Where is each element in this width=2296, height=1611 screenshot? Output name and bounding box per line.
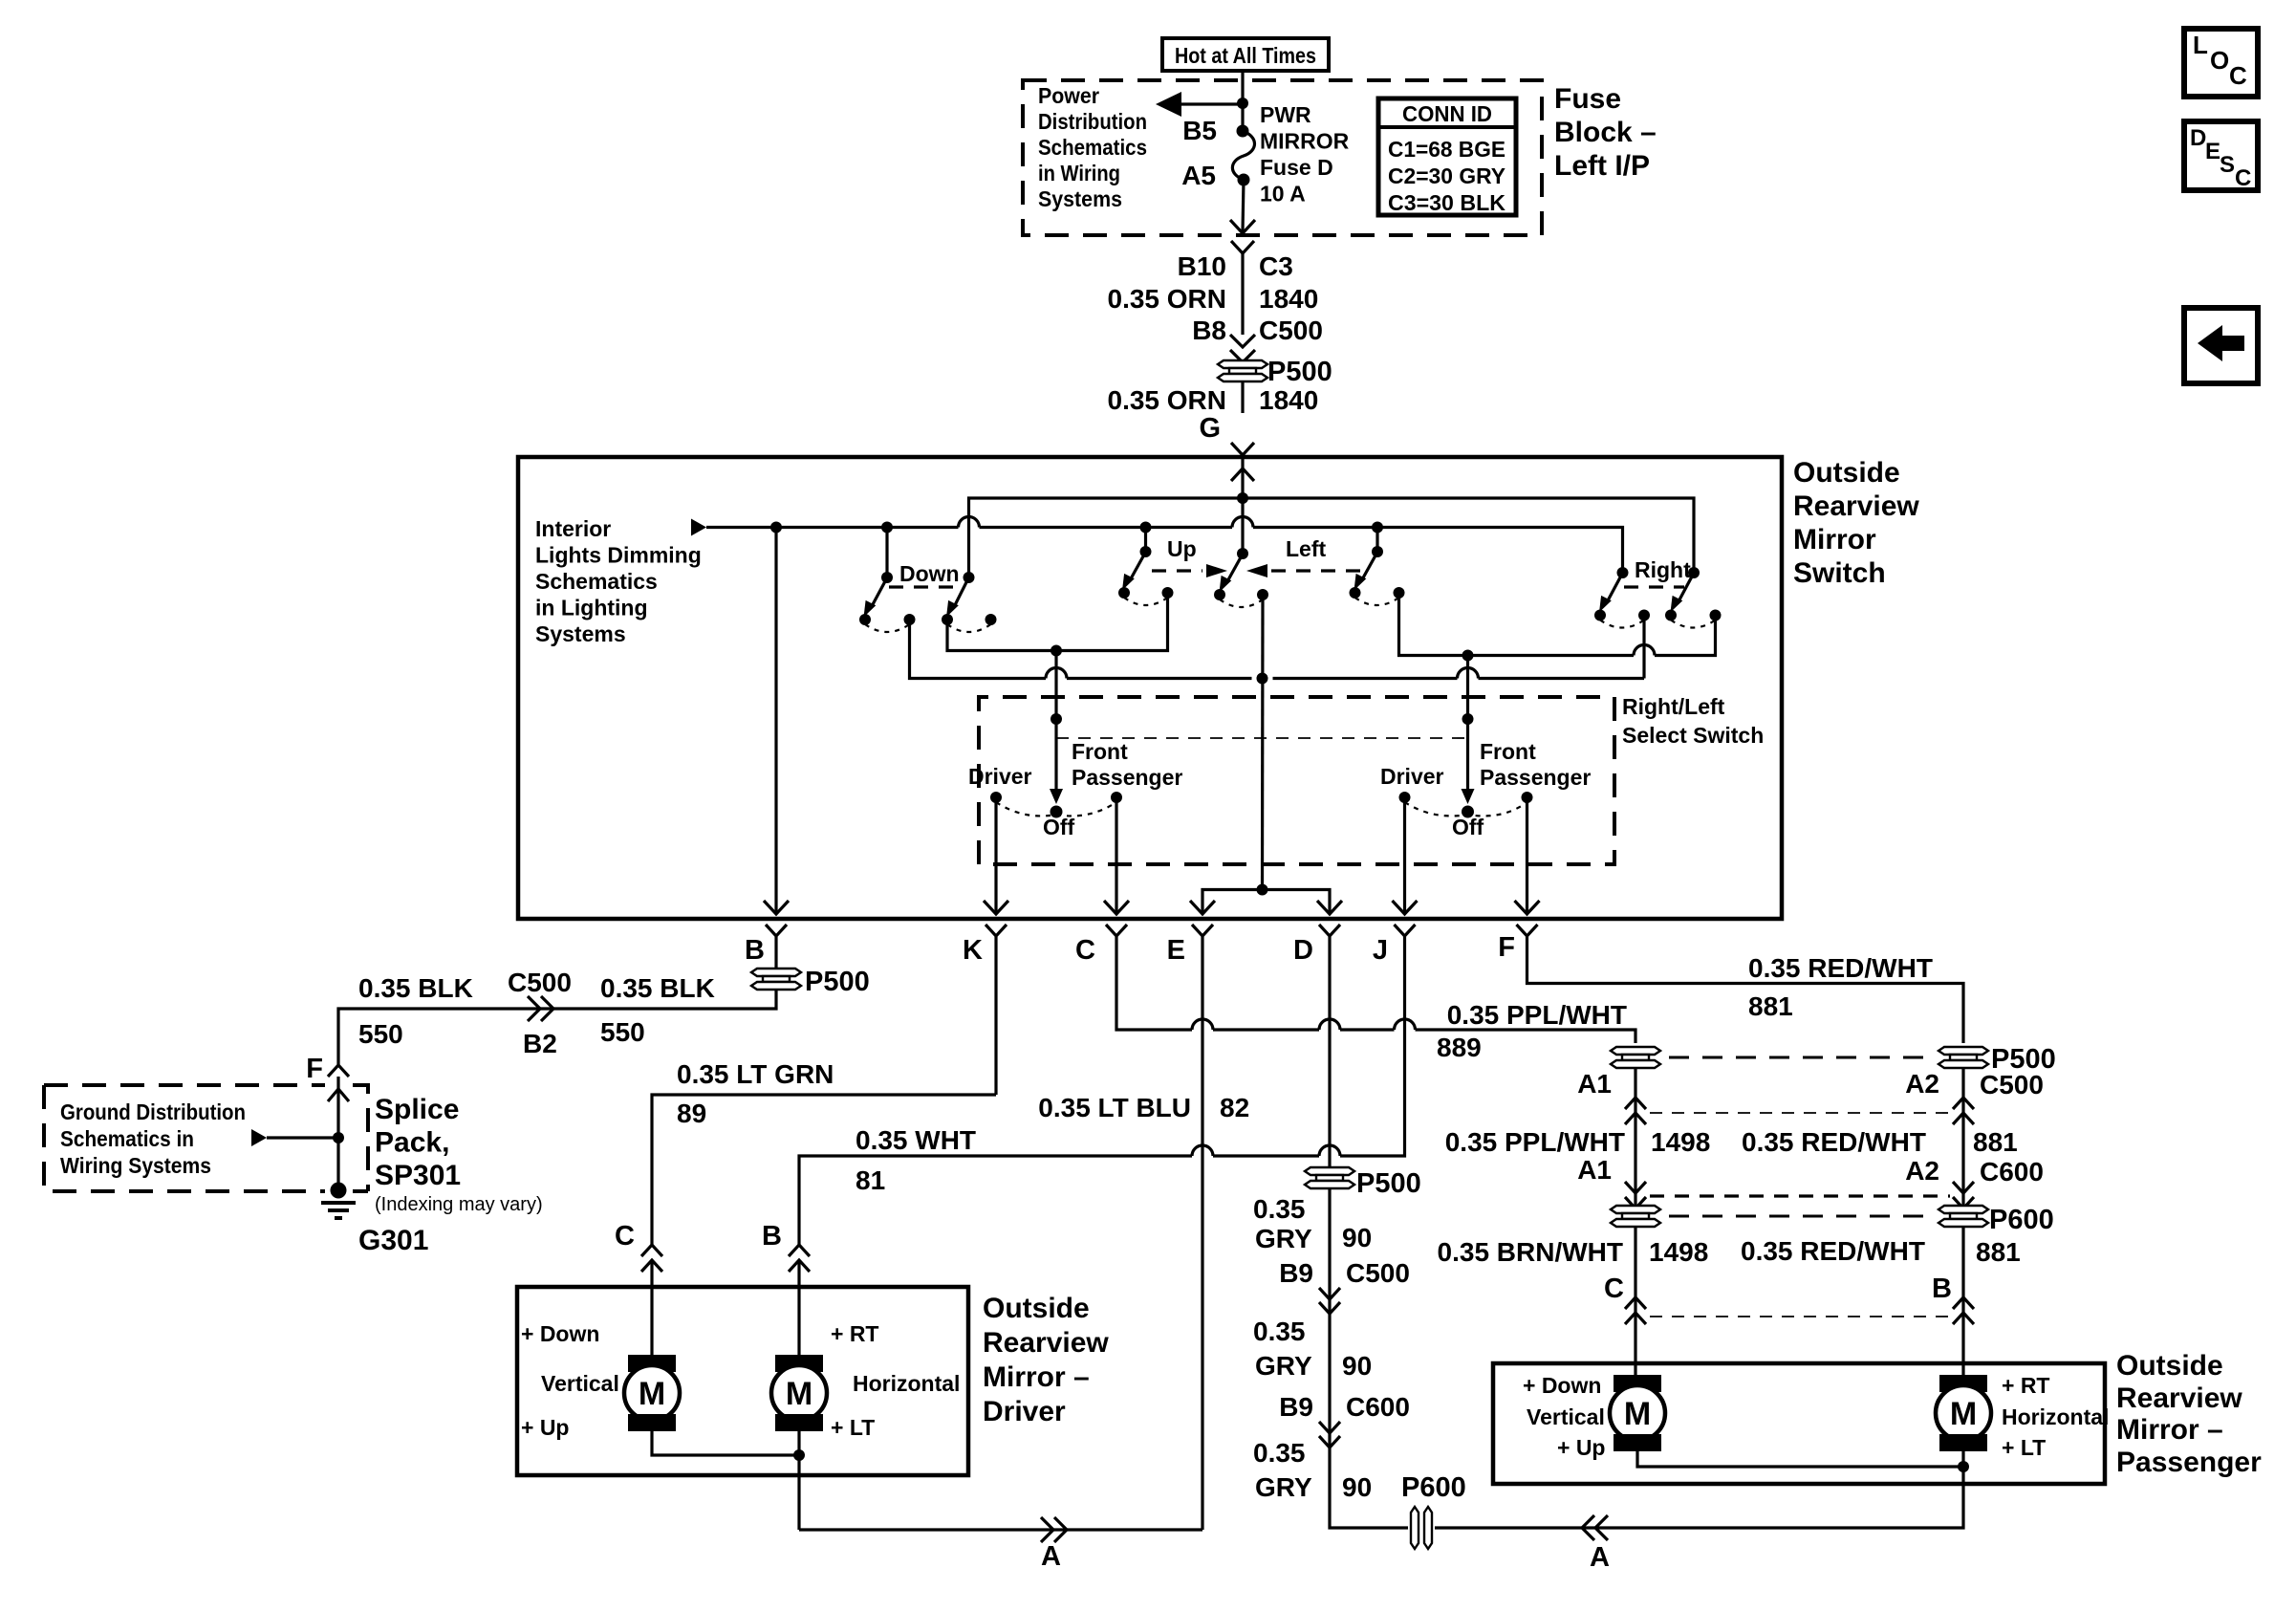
wire: F output <box>1526 797 1528 914</box>
arrow up inside ground box <box>328 1089 349 1101</box>
svg-text:0.35 BLK: 0.35 BLK <box>358 973 473 1003</box>
wire: J output <box>1403 797 1406 914</box>
svg-text:M: M <box>786 1376 812 1412</box>
select left contacts <box>968 739 1182 839</box>
svg-text:Down: Down <box>899 561 960 586</box>
svg-text:C500: C500 <box>1259 316 1323 345</box>
svg-text:P500: P500 <box>805 967 870 997</box>
wire: select right drop <box>1466 656 1469 720</box>
wire: left arm contact down to E/D <box>1261 595 1265 890</box>
svg-text:CONN ID: CONN ID <box>1402 101 1492 126</box>
down switch arm 1 <box>859 528 916 633</box>
node: up switch arm tap <box>1140 522 1152 533</box>
svg-text:Hot at All Times: Hot at All Times <box>1175 43 1316 68</box>
svg-text:82: 82 <box>1220 1093 1249 1122</box>
hop: WHT over E <box>1192 1145 1213 1156</box>
svg-text:90: 90 <box>1342 1472 1372 1502</box>
wire+arrow: select right arm to off <box>1466 719 1469 792</box>
arrow down E <box>1190 901 1215 914</box>
dashed link P500 pair <box>1669 1056 1933 1059</box>
wire: 0.35 GRY 90 chain on D <box>1253 1168 1466 1503</box>
svg-text:Rearview: Rearview <box>983 1327 1109 1359</box>
connector P500 (on orange feed) <box>1218 357 1332 387</box>
hop: rail B over rail A drop <box>959 517 980 528</box>
svg-text:Ground Distribution: Ground Distribution <box>60 1099 246 1124</box>
outside rearview mirror switch box <box>518 457 1782 919</box>
wire: K output <box>994 797 997 914</box>
connector P500 on B wire <box>751 967 870 997</box>
svg-text:Up: Up <box>1167 536 1197 561</box>
svg-text:Mirror –: Mirror – <box>983 1361 1090 1393</box>
outside rearview mirror passenger box <box>1493 1363 2105 1484</box>
connector P600 inline on A wire <box>1411 1484 1963 1549</box>
svg-text:0.35 PPL/WHT: 0.35 PPL/WHT <box>1447 1000 1627 1030</box>
wire+arrow: select left arm to off <box>1054 719 1057 792</box>
node: E/D split <box>1257 884 1268 896</box>
labels 0.35 PPL/WHT 889 <box>1437 1000 1627 1062</box>
svg-text:Block –: Block – <box>1554 117 1657 148</box>
svg-text:C: C <box>2229 61 2247 90</box>
svg-text:D: D <box>1293 935 1313 966</box>
wire: pointer to splice <box>267 1136 338 1139</box>
connector A chevrons on driver common <box>1041 1517 1067 1542</box>
svg-text:Distribution: Distribution <box>1038 109 1147 134</box>
label: Outside Rearview Mirror - Driver <box>983 1293 1109 1427</box>
svg-text:B9: B9 <box>1279 1258 1313 1288</box>
connector P600 left lens <box>1611 1206 1660 1227</box>
svg-text:+ RT: + RT <box>2002 1373 2049 1398</box>
wire: hot feed into fuse block <box>1241 71 1244 131</box>
svg-text:B5: B5 <box>1182 116 1217 145</box>
svg-text:Left: Left <box>1286 536 1327 561</box>
thin dashed link C600 halves <box>1650 1194 1950 1197</box>
svg-text:0.35 RED/WHT: 0.35 RED/WHT <box>1742 1127 1926 1157</box>
svg-text:Switch: Switch <box>1793 557 1886 589</box>
node: splice junction <box>333 1132 344 1143</box>
svg-text:90: 90 <box>1342 1223 1372 1252</box>
svg-text:P500: P500 <box>1267 357 1332 387</box>
node: common rail to E/D <box>1257 673 1268 685</box>
left action dashed arrow <box>1246 564 1267 577</box>
svg-text:C: C <box>2235 165 2251 191</box>
wire into switch box, pin G <box>1231 443 1254 455</box>
wire: C output <box>1115 797 1117 914</box>
svg-text:MIRROR: MIRROR <box>1260 129 1350 154</box>
wire: branch to power distribution (left arrow) <box>1178 102 1243 105</box>
svg-text:B: B <box>762 1221 782 1252</box>
wire: BRN/WHT drop to passenger C <box>1634 1227 1636 1363</box>
svg-text:B: B <box>745 935 765 966</box>
labels 0.35 PPL/WHT 1498 / 0.35 RED/WHT 881 <box>1445 1127 2018 1157</box>
svg-text:0.35 ORN: 0.35 ORN <box>1108 284 1227 314</box>
down switch arm 2 <box>942 572 997 632</box>
wire: select left drop <box>1054 651 1057 720</box>
connector B8/C500 chevrons <box>1230 335 1255 362</box>
svg-text:GRY: GRY <box>1255 1472 1312 1502</box>
conn id table <box>1378 98 1516 215</box>
svg-text:(Indexing may vary): (Indexing may vary) <box>375 1194 543 1215</box>
thin dashed link passenger mirror conn <box>1650 1316 1950 1317</box>
svg-text:P500: P500 <box>1356 1168 1421 1199</box>
svg-text:81: 81 <box>856 1165 885 1195</box>
svg-text:550: 550 <box>358 1019 403 1049</box>
svg-text:Schematics: Schematics <box>1038 135 1147 160</box>
svg-text:Splice: Splice <box>375 1094 459 1125</box>
chevron B9/C500 on D <box>1319 1288 1340 1314</box>
svg-text:Wiring Systems: Wiring Systems <box>60 1153 211 1178</box>
svg-text:0.35 LT BLU: 0.35 LT BLU <box>1038 1093 1191 1122</box>
connector P500 A1 lens <box>1611 1047 1660 1068</box>
svg-text:D: D <box>2190 125 2206 151</box>
node: up collector tap <box>1051 645 1062 657</box>
svg-text:A: A <box>1041 1541 1061 1572</box>
wire: contact drop to common rail <box>1642 616 1645 679</box>
svg-text:B2: B2 <box>523 1029 557 1058</box>
wire: A1 drop with chevrons up <box>1634 1068 1636 1208</box>
left switch center arm (on feed) <box>1214 498 1268 607</box>
svg-text:Driver: Driver <box>1380 764 1444 789</box>
ground G301 <box>321 1183 428 1257</box>
svg-text:0.35 RED/WHT: 0.35 RED/WHT <box>1741 1236 1925 1266</box>
svg-text:0.35: 0.35 <box>1253 1438 1306 1468</box>
connector C500 B2 chevrons <box>528 996 553 1021</box>
label: Interior Lights Dimming Schematics in Lighting Systems <box>535 516 702 646</box>
svg-text:Outside: Outside <box>1793 457 1900 489</box>
driver horizontal motor M <box>771 1287 960 1440</box>
node: right collector tap <box>1462 650 1474 662</box>
svg-text:1840: 1840 <box>1259 284 1318 314</box>
svg-text:1498: 1498 <box>1651 1127 1710 1157</box>
svg-text:Front: Front <box>1480 739 1536 764</box>
label: Right/Left Select Switch <box>1622 694 1764 748</box>
wire: A2 drop with chevrons up <box>1961 1068 1964 1208</box>
svg-text:0.35 BLK: 0.35 BLK <box>600 973 715 1003</box>
node: branch junction <box>1237 98 1248 109</box>
wire: RED/WHT drop to passenger B <box>1961 1227 1964 1363</box>
node: passenger common junction <box>1958 1461 1969 1472</box>
hop: common rail over select right drop <box>1458 668 1479 679</box>
svg-text:J: J <box>1373 935 1388 966</box>
node: driver common junction <box>793 1449 805 1461</box>
svg-text:881: 881 <box>1976 1237 2021 1267</box>
svg-text:A5: A5 <box>1181 161 1216 190</box>
select right contacts <box>1380 739 1591 839</box>
svg-text:Fuse: Fuse <box>1554 83 1621 115</box>
svg-text:in Lighting: in Lighting <box>535 596 648 620</box>
LOC box (top right icon) <box>2184 29 2258 97</box>
svg-text:C2=30 GRY: C2=30 GRY <box>1388 163 1505 188</box>
node: select left arm <box>1051 713 1062 725</box>
wire: 0.35 RED/WHT 881 (F to P500 A2) <box>1527 972 1964 1043</box>
svg-text:550: 550 <box>600 1017 645 1047</box>
arrow left (page pointer) <box>1156 92 1181 117</box>
svg-text:C500: C500 <box>1346 1258 1410 1288</box>
wire: D below P500 <box>1330 1188 1408 1528</box>
driver mirror pin letters + chevrons <box>615 1221 810 1287</box>
passenger vertical motor M <box>1523 1363 1665 1460</box>
svg-text:Rearview: Rearview <box>2116 1382 2242 1414</box>
svg-text:Horizontal: Horizontal <box>853 1371 960 1396</box>
svg-text:A1: A1 <box>1577 1155 1612 1185</box>
connector P500 on D lens <box>1305 1167 1354 1188</box>
svg-text:Driver: Driver <box>968 764 1032 789</box>
svg-text:C600: C600 <box>1980 1157 2044 1186</box>
svg-text:889: 889 <box>1437 1033 1482 1062</box>
mech link: select arms <box>1056 737 1468 739</box>
svg-text:C500: C500 <box>508 968 572 997</box>
hop: PPL over E <box>1192 1019 1213 1030</box>
svg-text:+ Up: + Up <box>1557 1435 1605 1460</box>
svg-text:+ Up: + Up <box>521 1415 569 1440</box>
svg-text:+ LT: + LT <box>2002 1435 2046 1460</box>
svg-text:Driver: Driver <box>983 1396 1066 1427</box>
label: Ground Distribution Schematics in Wiring Systems <box>60 1099 246 1178</box>
svg-text:C3=30 BLK: C3=30 BLK <box>1388 190 1505 215</box>
svg-text:PWR: PWR <box>1260 102 1311 127</box>
svg-text:0.35 WHT: 0.35 WHT <box>856 1125 976 1155</box>
svg-text:1498: 1498 <box>1649 1237 1708 1267</box>
rail B: dimming feed bus <box>706 528 1623 574</box>
connector P600 right lens <box>1939 1205 2054 1235</box>
svg-text:C: C <box>1604 1274 1624 1304</box>
wire: driver motors common <box>652 1429 799 1530</box>
svg-text:A: A <box>1590 1542 1610 1573</box>
svg-text:B: B <box>1932 1274 1952 1304</box>
svg-text:M: M <box>1624 1396 1651 1432</box>
passenger pin letters + chevrons <box>1604 1274 1974 1324</box>
svg-text:C: C <box>1075 935 1095 966</box>
outside rearview mirror driver box <box>517 1287 968 1475</box>
wire: 0.35 LT GRN 89 (K to driver mirror C) <box>652 1095 996 1245</box>
svg-text:Systems: Systems <box>1038 186 1122 211</box>
labels 0.35 LT GRN 89 <box>677 1059 834 1128</box>
svg-text:Off: Off <box>1452 815 1484 839</box>
svg-text:89: 89 <box>677 1099 706 1128</box>
svg-text:+ Down: + Down <box>1523 1373 1601 1398</box>
svg-text:C500: C500 <box>1980 1070 2044 1099</box>
svg-text:Rearview: Rearview <box>1793 490 1919 522</box>
right/left select switch dashed box <box>979 697 1614 864</box>
svg-text:Right: Right <box>1635 557 1691 582</box>
left switch arm 2 <box>1350 528 1405 606</box>
connector P500 A2 lens <box>1939 1044 2056 1075</box>
svg-text:Select Switch: Select Switch <box>1622 723 1764 748</box>
svg-text:Passenger: Passenger <box>2116 1447 2262 1478</box>
connector A chevrons (passenger) <box>1582 1515 1608 1540</box>
svg-text:0.35 LT GRN: 0.35 LT GRN <box>677 1059 834 1089</box>
svg-text:Mirror –: Mirror – <box>2116 1414 2223 1446</box>
svg-text:A2: A2 <box>1905 1156 1939 1186</box>
wire: passenger motors common <box>1637 1449 1963 1484</box>
svg-text:Left I/P: Left I/P <box>1554 150 1650 182</box>
hop: main feed over rail B <box>1232 517 1253 528</box>
labels A1 A2 C500 <box>1577 1069 2044 1099</box>
svg-text:Passenger: Passenger <box>1072 765 1182 790</box>
driver vertical motor M <box>521 1287 680 1440</box>
svg-text:G: G <box>1199 413 1221 444</box>
rail A: upper feed bus <box>969 498 1695 577</box>
label 0.35 ORN 1840 (lower) <box>1108 385 1319 444</box>
labels A1 A2 C600 <box>1577 1155 2044 1186</box>
svg-text:G301: G301 <box>358 1225 428 1256</box>
hop: right collector over contact drop <box>1634 645 1655 656</box>
DESC box (top right icon) <box>2184 121 2258 191</box>
svg-text:B10: B10 <box>1178 251 1226 281</box>
ground feed pointer <box>251 1129 267 1146</box>
svg-text:S: S <box>2220 152 2235 178</box>
wire: driver mirror A (LT BLU) <box>799 1528 1202 1531</box>
svg-text:Schematics: Schematics <box>535 569 658 594</box>
svg-text:B8: B8 <box>1192 316 1226 345</box>
svg-text:Schematics in: Schematics in <box>60 1126 194 1151</box>
label: Fuse Block - Left I/P <box>1554 83 1657 182</box>
svg-text:10 A: 10 A <box>1260 182 1306 207</box>
right switch arm 2 <box>1665 567 1722 628</box>
svg-text:Lights Dimming: Lights Dimming <box>535 543 702 568</box>
labels 0.35 BRN/WHT 1498 / 0.35 RED/WHT 881 <box>1438 1236 2021 1267</box>
svg-text:+ Down: + Down <box>521 1321 599 1346</box>
svg-text:881: 881 <box>1748 991 1793 1021</box>
label: Splice Pack SP301 <box>375 1094 543 1215</box>
svg-text:Systems: Systems <box>535 621 626 646</box>
fuse block dashed box <box>1023 80 1542 235</box>
svg-text:M: M <box>639 1376 665 1412</box>
svg-text:P600: P600 <box>1989 1205 2054 1235</box>
svg-text:M: M <box>1950 1396 1977 1432</box>
svg-text:Horizontal: Horizontal <box>2002 1404 2109 1429</box>
svg-text:0.35 RED/WHT: 0.35 RED/WHT <box>1748 953 1933 983</box>
up action dashed arrow <box>1152 569 1202 572</box>
svg-text:O: O <box>2210 46 2229 75</box>
node: B tap <box>770 522 782 533</box>
wire: right collector rail <box>1399 593 1716 656</box>
wire: vertical motor common rail <box>910 620 1645 679</box>
svg-text:Power: Power <box>1038 83 1099 108</box>
wire: up collector rail <box>947 593 1168 651</box>
arrow down D <box>1317 901 1342 914</box>
svg-text:B9: B9 <box>1279 1392 1313 1422</box>
svg-text:in Wiring: in Wiring <box>1038 161 1120 185</box>
arrow up into switch <box>1231 468 1254 481</box>
hop: WHT over D <box>1319 1145 1340 1156</box>
svg-text:0.35 PPL/WHT: 0.35 PPL/WHT <box>1445 1127 1625 1157</box>
svg-text:Vertical: Vertical <box>1527 1404 1605 1429</box>
label: Outside Rearview Mirror - Passenger <box>2116 1350 2262 1478</box>
back arrow box (icon) <box>2184 308 2258 383</box>
svg-text:+ LT: + LT <box>831 1415 875 1440</box>
svg-text:Mirror: Mirror <box>1793 524 1876 555</box>
hop: PPL over J <box>1395 1019 1416 1030</box>
svg-text:L: L <box>2193 31 2208 59</box>
wire: E/D splitter <box>1202 890 1330 915</box>
hop: common rail over select left drop <box>1046 668 1067 679</box>
arrow down B at box bottom <box>764 901 789 914</box>
svg-text:Off: Off <box>1043 815 1075 839</box>
wire: fuse block to P500 (0.35 ORN 1840) <box>1108 241 1323 345</box>
svg-text:E: E <box>2205 139 2220 164</box>
svg-text:GRY: GRY <box>1255 1351 1312 1381</box>
ground distribution dashed box <box>44 1085 368 1191</box>
labels 0.35 RED/WHT 881 <box>1748 953 1933 1021</box>
svg-text:881: 881 <box>1973 1127 2018 1157</box>
node: down switch arm1 tap <box>881 522 893 533</box>
wire to connector P500 <box>1241 362 1244 413</box>
svg-text:C1=68 BGE: C1=68 BGE <box>1388 137 1505 162</box>
svg-text:GRY: GRY <box>1255 1224 1312 1253</box>
svg-text:Interior: Interior <box>535 516 611 541</box>
dashed link P600 pair <box>1669 1215 1933 1218</box>
right switch arm 1 <box>1594 567 1650 628</box>
label: Outside Rearview Mirror Switch <box>1793 457 1919 589</box>
mech link down <box>889 585 958 588</box>
svg-text:K: K <box>963 935 983 966</box>
labels 0.35 BLK 550 / C500 B2 <box>358 968 715 1058</box>
wire: 0.35 BLK 550 to splice <box>338 990 776 1063</box>
svg-text:C3: C3 <box>1259 251 1293 281</box>
wire: fuse output down <box>1243 180 1244 231</box>
chevrons down at C600 <box>1625 1182 1646 1208</box>
hot at all times box <box>1162 38 1329 71</box>
svg-text:0.35 BRN/WHT: 0.35 BRN/WHT <box>1438 1237 1623 1267</box>
svg-text:P600: P600 <box>1401 1472 1466 1503</box>
svg-text:Vertical: Vertical <box>541 1371 619 1396</box>
svg-text:Outside: Outside <box>2116 1350 2223 1382</box>
svg-text:A1: A1 <box>1577 1069 1612 1099</box>
connector chevrons below box <box>766 925 1538 1530</box>
up switch arm <box>1118 528 1174 606</box>
svg-text:C: C <box>615 1221 635 1252</box>
svg-text:F: F <box>306 1054 323 1084</box>
node: feed junction on rail A <box>1237 492 1248 504</box>
svg-text:SP301: SP301 <box>375 1160 461 1191</box>
svg-text:A2: A2 <box>1905 1069 1939 1099</box>
node: select right arm <box>1462 713 1474 725</box>
label 0.35 LT BLU 82 <box>1038 1093 1249 1122</box>
svg-text:Passenger: Passenger <box>1480 765 1591 790</box>
fuse F: PWR MIRROR Fuse D 10A <box>1181 102 1349 207</box>
mech link right <box>1624 585 1684 588</box>
node: left switch arm2 tap <box>1372 522 1383 533</box>
svg-text:Fuse D: Fuse D <box>1260 155 1333 180</box>
dimming feed pointer <box>691 519 706 536</box>
svg-text:E: E <box>1167 935 1185 966</box>
svg-text:Right/Left: Right/Left <box>1622 694 1725 719</box>
passenger horizontal motor M <box>1936 1363 2109 1460</box>
wire: 0.35 WHT 81 (J to driver mirror B) <box>799 1144 1405 1245</box>
svg-text:0.35: 0.35 <box>1253 1194 1306 1224</box>
svg-text:Front: Front <box>1072 739 1128 764</box>
hop: PPL over D <box>1319 1019 1340 1030</box>
arrow down at fuse box bottom <box>1230 220 1255 233</box>
labels 0.35 WHT 81 <box>856 1125 976 1195</box>
svg-text:Outside: Outside <box>983 1293 1090 1324</box>
svg-text:0.35: 0.35 <box>1253 1317 1306 1346</box>
chevron B9/C600 on D <box>1319 1422 1340 1448</box>
wire: B output drop <box>774 528 777 915</box>
fuse block note: power distribution schematics <box>1038 83 1147 211</box>
svg-text:1840: 1840 <box>1259 385 1318 415</box>
svg-text:+ RT: + RT <box>831 1321 878 1346</box>
svg-text:Pack,: Pack, <box>375 1127 449 1159</box>
splice chevron F <box>328 1063 349 1077</box>
wire: 0.35 PPL/WHT 889 (C to P500 A1) <box>1116 1018 1635 1043</box>
thin dashed link C500 halves <box>1650 1112 1950 1114</box>
svg-text:90: 90 <box>1342 1351 1372 1381</box>
wire into splice pack <box>336 1077 339 1188</box>
pin letters under switch box <box>745 932 1515 966</box>
svg-text:F: F <box>1498 932 1515 963</box>
svg-text:C600: C600 <box>1346 1392 1410 1422</box>
